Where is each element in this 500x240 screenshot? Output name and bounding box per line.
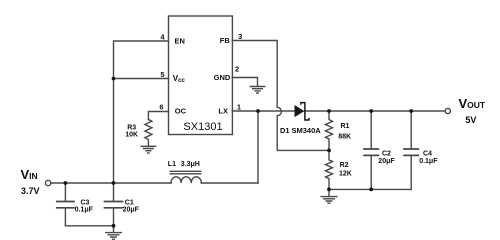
capacitor C4 bbox=[410, 111, 412, 189]
wire OC to R3 bbox=[148, 112, 168, 120]
inductor L1 core bars bbox=[170, 171, 201, 174]
wire LX node down to inductor bbox=[257, 111, 259, 183]
svg-text:LX: LX bbox=[218, 107, 228, 116]
svg-text:6: 6 bbox=[159, 102, 163, 111]
svg-text:EN: EN bbox=[175, 37, 185, 46]
svg-text:1: 1 bbox=[237, 103, 241, 112]
wire Vin rail bbox=[51, 182, 171, 184]
inductor L1 bbox=[171, 177, 201, 183]
svg-text:3: 3 bbox=[238, 32, 242, 41]
svg-text:12K: 12K bbox=[339, 171, 352, 178]
svg-text:VOUT: VOUT bbox=[459, 96, 486, 111]
junction dot diode / R1 bbox=[327, 109, 331, 113]
ground below C1 bbox=[106, 233, 122, 240]
svg-text:3.3μH: 3.3μH bbox=[181, 161, 200, 168]
wire LX to diode bbox=[232, 110, 294, 112]
svg-text:88K: 88K bbox=[338, 133, 351, 140]
ground below R3 bbox=[141, 146, 155, 153]
wire EN to Vin rail bbox=[114, 41, 169, 183]
svg-text:C4: C4 bbox=[423, 150, 432, 157]
terminal VIN circle bbox=[45, 180, 50, 185]
junction dot rail / C4 bbox=[409, 109, 413, 113]
svg-text:D1: D1 bbox=[280, 126, 290, 135]
wire R2 bottom rail to C4 bbox=[329, 189, 411, 196]
svg-text:OC: OC bbox=[175, 107, 187, 116]
terminal VOUT circle bbox=[445, 108, 450, 113]
svg-text:GND: GND bbox=[214, 73, 231, 82]
junction dot LX node bbox=[256, 109, 260, 113]
resistor R2 bbox=[326, 150, 333, 189]
wire diode cathode to Vout bbox=[305, 110, 446, 112]
wire Vcc bbox=[114, 78, 169, 80]
svg-text:L1: L1 bbox=[168, 161, 176, 168]
junction dot Vin rail / C3 bbox=[64, 181, 68, 185]
ground below R2 bbox=[321, 197, 337, 204]
capacitor C1 bbox=[113, 183, 115, 232]
svg-text:Vcc: Vcc bbox=[173, 74, 186, 84]
capacitor C3 bbox=[64, 183, 66, 226]
junction dot C1 bottom bbox=[112, 224, 116, 228]
junction dot bottom rail / C2 bbox=[369, 188, 373, 192]
op-amp U1 SX1301 box bbox=[169, 16, 233, 135]
svg-text:0.1μF: 0.1μF bbox=[419, 158, 438, 165]
svg-text:0.1μF: 0.1μF bbox=[75, 207, 94, 214]
junction dot rail / C2 bbox=[369, 109, 373, 113]
svg-text:VIN: VIN bbox=[21, 167, 38, 182]
wire FB down with hop over LX wire bbox=[232, 41, 281, 151]
wire GND pin bbox=[232, 78, 257, 86]
svg-text:FB: FB bbox=[220, 36, 231, 45]
junction dot R2 bottom bbox=[327, 188, 331, 192]
junction dot Vin rail / C1 bbox=[112, 181, 116, 185]
svg-text:20μF: 20μF bbox=[123, 207, 140, 214]
diode D1 schottky cathode bar bbox=[301, 103, 309, 120]
svg-text:5: 5 bbox=[160, 70, 164, 79]
capacitor C2 bbox=[370, 111, 372, 189]
svg-text:SX1301: SX1301 bbox=[183, 121, 222, 133]
svg-text:5V: 5V bbox=[465, 115, 476, 125]
wire C3 bottom to C1 bottom bbox=[65, 225, 113, 227]
svg-text:SM340A: SM340A bbox=[292, 126, 322, 135]
ground at GND pin bbox=[250, 87, 264, 94]
diode D1 triangle bbox=[295, 105, 305, 117]
wire FB node to R1/R2 junction bbox=[277, 149, 329, 151]
junction dot Vcc/EN line bbox=[112, 77, 116, 81]
svg-text:R2: R2 bbox=[340, 162, 349, 169]
svg-text:C2: C2 bbox=[382, 150, 391, 157]
svg-text:3.7V: 3.7V bbox=[21, 186, 40, 196]
svg-text:10K: 10K bbox=[125, 132, 138, 139]
wire L1 to LX node bbox=[201, 182, 258, 184]
svg-text:R3: R3 bbox=[127, 124, 136, 131]
svg-text:4: 4 bbox=[160, 32, 165, 41]
resistor R3 bbox=[145, 120, 152, 146]
junction dot FB divider node bbox=[327, 149, 331, 153]
svg-text:20μF: 20μF bbox=[378, 158, 395, 165]
resistor R1 bbox=[326, 111, 333, 150]
svg-text:R1: R1 bbox=[341, 123, 350, 130]
svg-text:2: 2 bbox=[235, 65, 239, 74]
